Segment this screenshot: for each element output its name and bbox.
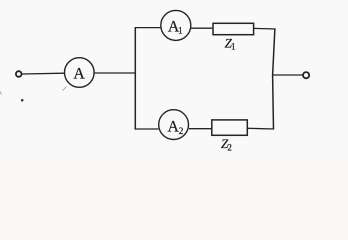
svg-text:1: 1 — [231, 41, 236, 51]
svg-text:A: A — [73, 66, 85, 83]
faint tick mark — [63, 87, 67, 91]
svg-text:1: 1 — [178, 27, 183, 37]
label A2 — [167, 119, 183, 137]
label A1 — [168, 19, 183, 37]
wire top rail left — [135, 27, 162, 29]
wire left terminal to ammeter A — [22, 72, 65, 75]
ammeter A1 — [161, 10, 191, 40]
svg-text:2: 2 — [179, 127, 184, 137]
wire bottom rail left — [135, 128, 159, 130]
ammeter A — [65, 58, 95, 88]
right terminal — [303, 72, 309, 78]
label Z2 — [221, 136, 232, 152]
wire Z2 to right bus — [247, 127, 274, 130]
impedance Z2 — [212, 120, 248, 135]
left bus wire — [134, 27, 136, 130]
wire Z1 to right bus — [254, 27, 276, 30]
label Z1 — [225, 35, 236, 51]
right bus wire — [273, 28, 275, 129]
impedance Z1 — [213, 23, 254, 34]
left terminal — [16, 71, 22, 77]
wire A2 to Z2 — [189, 128, 212, 130]
wire ammeter A to left bus — [94, 72, 136, 74]
ammeter A2 — [159, 110, 189, 140]
wire right bus to right terminal — [273, 74, 303, 76]
svg-text:2: 2 — [227, 142, 232, 152]
faint edge mark — [0, 92, 2, 95]
stray dot mark — [21, 99, 24, 102]
wire A1 to Z1 — [191, 27, 214, 29]
